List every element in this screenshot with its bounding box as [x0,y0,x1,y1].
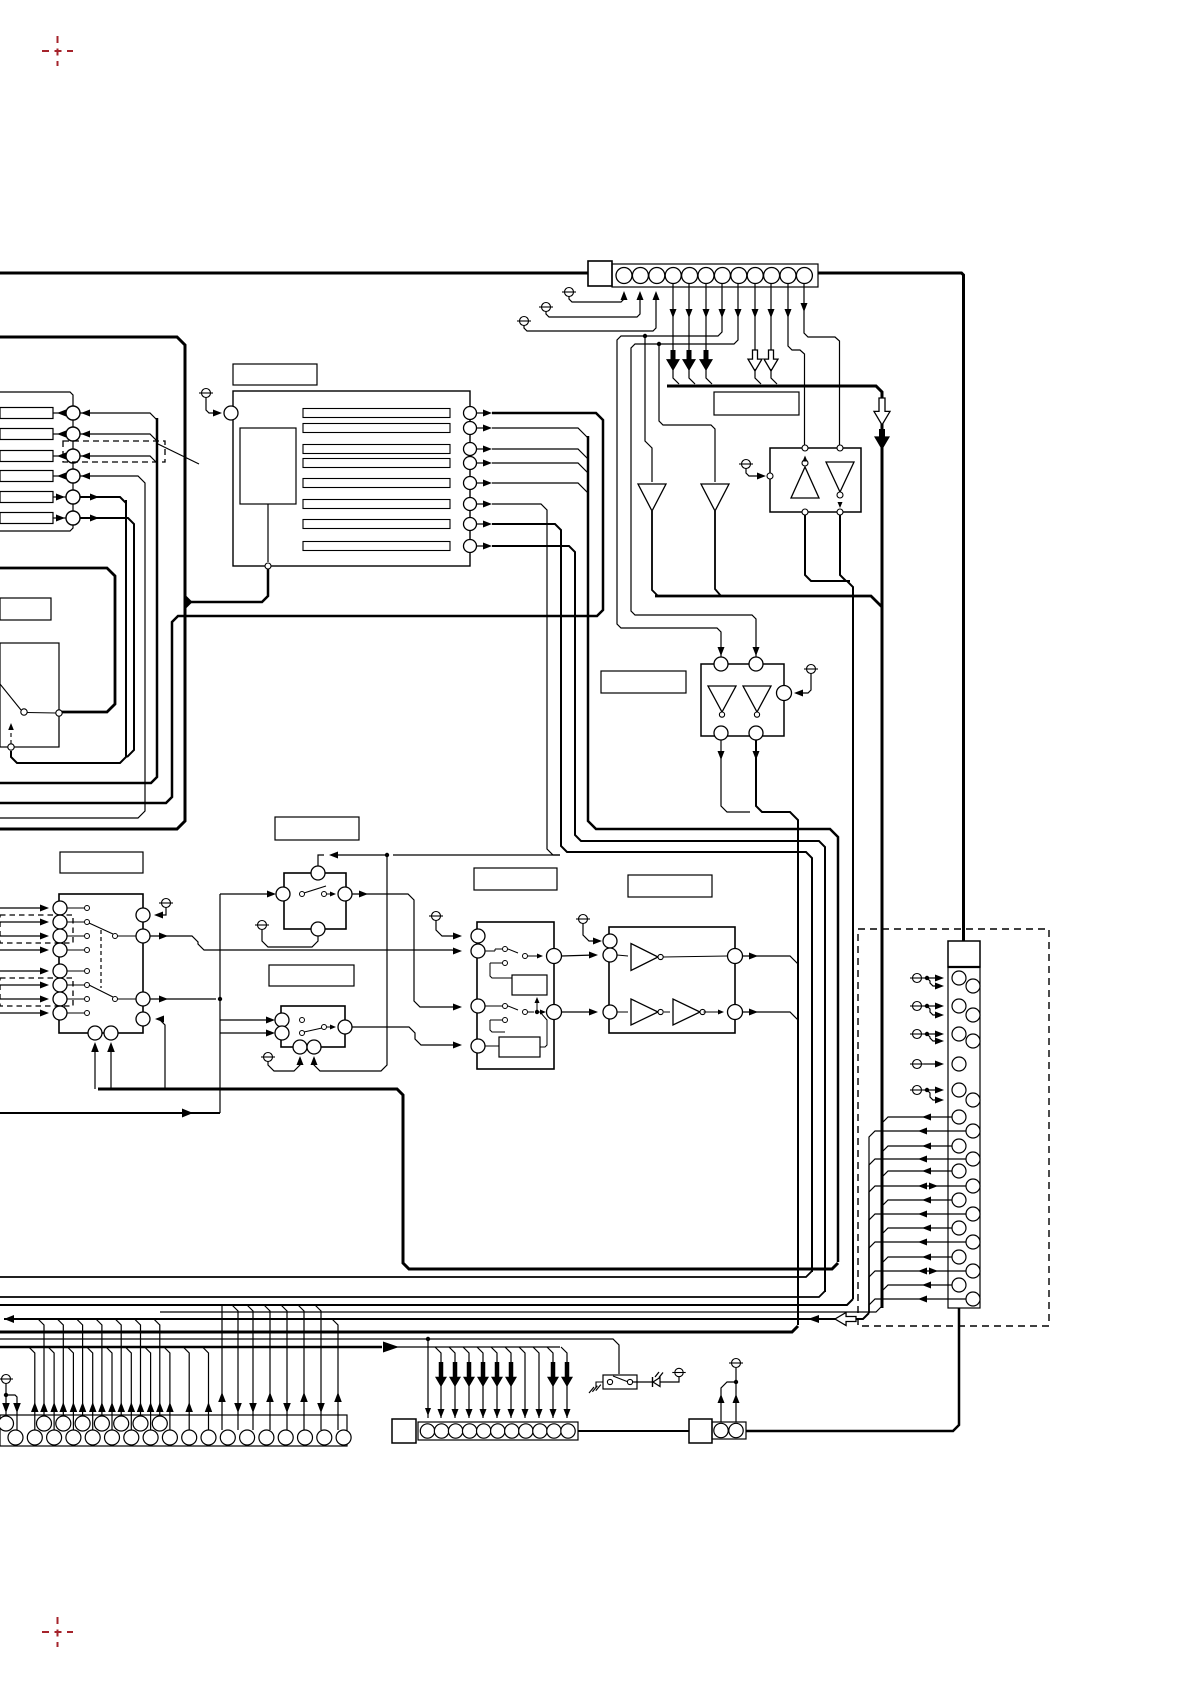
selector contact 6 [85,983,90,988]
connector CN101 pin 7 [714,268,730,284]
selector block body [59,894,143,1033]
right connector pin R [966,1179,980,1193]
terminal T3 [520,317,529,326]
bottom-left connector bottom pin 13 [240,1430,255,1445]
right connector pin R [966,1264,980,1278]
wire J1 down to buffer amp A1 [645,336,652,482]
feedback arrow box1 to node [536,1000,538,1012]
drops from bus y1319 to connector top row [38,1319,44,1415]
terminal with branch to right connector [913,1060,922,1069]
amp block output pin circles [802,509,808,515]
hollow arrow on bus y1319 [835,1313,856,1326]
middle connector pin 4 [462,1424,476,1438]
connector CN101 pin 10 [764,268,780,284]
terminal T8 to switch2 bottom [264,1053,273,1062]
B-block row 1 output circle [464,407,477,420]
buffer triangle B2b [673,999,700,1025]
middle connector pin 11 [561,1424,575,1438]
bottom-left connector bottom pin 10 [182,1430,197,1445]
solid block arrow on drop [449,1362,461,1387]
middle connector pin 5 [477,1424,491,1438]
label box for B-block [233,364,317,385]
right connector pin R [966,979,980,993]
right connector pin R [966,1093,980,1107]
detect switch box [603,1375,637,1389]
bottom-left connector top pin 6 [114,1416,129,1431]
inverter block mute circle [777,686,792,701]
bus line y1339 thin with node [0,1339,619,1374]
solid block arrow on drop [561,1362,573,1387]
middle connector pin 2 [434,1424,448,1438]
bottom-left connector bottom pin 17 [317,1430,332,1445]
selector input 7 circle [53,992,67,1006]
mid-left block label box [0,598,51,620]
wire J2 down to buffer amp A2 [659,344,715,482]
middle connector pin 10 [547,1424,561,1438]
wire inverter outputs down to thick vertical x798 [721,740,750,812]
buffer block body [609,927,735,1033]
bottom-left connector top pin 4 [75,1416,90,1431]
mid-right input circles [471,929,485,943]
bottom-left connector bottom pin 4 [66,1430,81,1445]
solid block arrow on drop [477,1362,489,1387]
terminal with branch to right connector [913,1002,922,1011]
selector input 1 wire [0,907,45,909]
mixer row 6 box [0,513,53,524]
switch2 block body [281,1006,345,1047]
buffer input circles [603,934,617,948]
terminal with branch to right connector [913,1030,922,1039]
connector CN101 pin 4 [665,268,681,284]
right connector pin L4 [952,1057,966,1071]
middle connector pin 3 [448,1424,462,1438]
switch2 right circle [338,1020,352,1034]
dashed control arrow [10,726,12,744]
right connector pin L1 [952,971,966,985]
wire T2 to pin2 [546,296,640,317]
wire mixer row1 input from bus x157 [80,413,157,420]
registration mark top-left [42,36,73,66]
connector3 pins [714,1423,728,1437]
label box for inverter block [601,671,686,693]
selector bottom circles [88,1026,102,1040]
junction line y855 into switch blocks [393,854,560,856]
solid block arrow on drop [435,1362,447,1387]
bottom-left connector top pin 3 [56,1416,71,1431]
wire mid-right out1 to buffer in [562,955,595,956]
wire buffer out1 to vertical x798 [743,956,799,964]
switch2 left circles [275,1013,289,1027]
bottom-left connector top pin 5 [94,1416,109,1431]
middle connector body [418,1422,578,1440]
bottom-left connector bottom pin 6 [105,1430,120,1445]
terminal T9 to selector aux [162,899,171,908]
switch output node circle [8,744,14,750]
amp block input pin circles [802,445,808,451]
bottom-left connector top pin 2 [37,1416,52,1431]
right connector pin L12 [952,1278,966,1292]
switch2 bottom circles [293,1040,307,1054]
buffer triangle B2a [631,999,658,1025]
bottom-left connector top pin 1 [0,1416,14,1431]
wire mixer row2 input from bus x157 [80,434,157,441]
B-block row 8 output circle [464,540,477,553]
right connector pin R [966,1235,980,1249]
right connector pin L11 [952,1250,966,1264]
terminal T11 to buffer top input [579,915,588,924]
wires into switch2 left [220,1019,271,1021]
B-block row 2 output circle [464,422,477,435]
selector input 4 circle [53,943,67,957]
label box for switch2 block [269,965,354,986]
label box for selector block [60,852,143,873]
solid block arrow on pin4 wire [666,350,680,371]
wire: top bus from left edge to connector CN101 [0,272,588,275]
wire LED to terminal T14 [660,1377,679,1382]
selector input 6 circle [53,978,67,992]
drops from bus y1347 to connector bottom row [29,1347,35,1430]
selector contact 2 [85,920,90,925]
right connector header [948,941,980,967]
right connector pin R [966,1008,980,1022]
bus line y1297 [0,1291,825,1297]
B-block row 8 register box [303,542,450,551]
drops from y1347 to middle connector [435,1347,441,1418]
terminal T5 to mute input [807,665,816,674]
label box for switch1 block [275,817,359,840]
wire switch1 output to mid-right block [352,894,458,1007]
B-block row 5 register box [303,479,450,488]
mixer row 6 circle [66,511,80,525]
selector input 3 wire [0,935,45,937]
right connector pin L5 [952,1083,966,1097]
middle connector pin 9 [533,1424,547,1438]
wire A1/A2 outputs merge to thick line y596 [652,511,658,596]
bus line y1312 [160,1306,882,1312]
thick line y803 from B-box row1 return [0,413,603,803]
wire CN101 pin8 left-down to inverter U2 input 2, node J2 [631,284,756,658]
bottom-left connector bottom pin 15 [278,1430,293,1445]
wire buffer out2 to vertical x798 [743,1012,799,1020]
terminal T14 [675,1368,683,1376]
switch2 contacts [300,1018,305,1023]
B-block body [233,391,470,566]
wire node x220 up to switch1, down to switch2 [219,894,221,1033]
mid-right internals group2 [503,1004,508,1009]
dashed gang line [100,930,102,988]
B-block row 4 output circle [464,457,477,470]
bottom-left connector bottom pin 8 [143,1430,158,1445]
selector input 1 circle [53,901,67,915]
amp block buffer triangle up [791,467,819,498]
wire controller to bottom port [267,504,269,562]
solid block arrow on pin5 wire [682,350,696,371]
wire CN101 pin5 down to bus [688,284,690,352]
wire B row4 to bus x588 [492,463,588,473]
switch SW1 arm [0,684,21,710]
wire CN101 pin11 to amp input A [788,284,805,445]
wire from thick y1089 to selector aux 1019 [159,1019,165,1089]
B-block row 5 output circle [464,477,477,490]
selector input 8 circle [53,1006,67,1020]
B-block row 3 output circle [464,443,477,456]
bottom-left connector body [0,1415,347,1446]
wire B row7 via x561 to thick y852->x812 [492,524,812,1272]
wire into switch1 left [220,893,272,895]
B-block row 4 register box [303,459,450,468]
selector input 6 wire [0,984,45,986]
registration mark bottom-left [42,1617,73,1647]
B-block internal controller box [240,428,296,504]
mixer row 2 circle [66,427,80,441]
buffer output circle 1 [728,949,743,964]
buffer output circle 2 [728,1005,743,1020]
connector3 body [712,1422,746,1439]
wire CN101 pin4 down to bus [672,284,674,352]
terminal with branch to right connector [913,1086,922,1095]
wire from x126 to switch block circle [11,500,126,763]
buffer triangle B1 [631,944,658,971]
wire bottom of mixer column [0,524,73,531]
right connector pin L8 [952,1164,966,1178]
inverter block input circles [714,657,728,671]
selector input 2 wire [0,921,45,923]
selector contact 4 [85,948,90,953]
wire CN101 pin7 left-down to inverter U2 input 1, node J1 [617,284,722,658]
selector output node to switch blocks [150,998,216,1000]
wire: top bus from connector to right edge, down right side [818,273,964,941]
terminal T7 [258,921,267,930]
terminal T2 [542,303,551,312]
right connector pin L7 [952,1139,966,1153]
arrow line y1113 to off-page [0,1112,220,1114]
terminal T6 to B-block input [202,389,211,398]
wire B row6 via x547 to junction line y855 [492,504,560,855]
bottom-left connector bottom pin 9 [162,1430,177,1445]
label box for IC amp block [714,392,799,415]
selector common B circle [136,992,150,1006]
mid-left block border (thick rounded) [0,568,115,712]
bottom-left connector bottom pin 7 [124,1430,139,1445]
inverter U2a triangle [708,686,736,712]
connector CN101 pin 1 [616,268,632,284]
hollow block arrow on right bus [874,398,890,425]
wire mixer row6 output joins x126 [80,518,134,757]
wires from thick y1089 up into selector bottom [94,1044,96,1089]
wire middle connector to connector3 [578,1430,689,1432]
dashed group box rows6-7 [0,978,73,1006]
wire CN101 pin9 down to bus (hollow arrow) [754,284,756,350]
wire top of mixer column [0,392,73,407]
wire amp outputs merge to vertical x853 [805,515,853,1299]
bottom-left connector bottom pin 14 [259,1430,274,1445]
mixer row 4 circle [66,469,80,483]
drop from bus y1319 x338 [332,1319,338,1430]
wire selector output row-a to mid-right block [150,936,452,950]
connector CN101 pin 5 [682,268,698,284]
wire B row3 to bus x588 [492,449,588,459]
selector contact 7 [85,997,90,1002]
wire T3 to pin3 [524,296,656,331]
outer border of upper-left block (thick rounded) [0,337,185,829]
inverter U2b triangle [743,686,771,712]
solid block arrow on drop [547,1362,559,1387]
mixer row 2 box [0,429,53,440]
switch1 right circle [338,887,352,901]
wire B row2 to bus x588 [492,428,588,438]
connector CN101 pin 12 [796,268,812,284]
bus x588 rows2-5 to thick y829 [492,483,588,493]
terminal with branch to right connector [913,974,922,983]
bottom-left connector bottom pin 16 [298,1430,313,1445]
terminal T10 to mid-right input1 [432,912,441,921]
bottom-left connector bottom pin 18 [336,1430,351,1445]
solid block arrow on drop [463,1362,475,1387]
connector CN101 body [612,264,818,287]
right connector pin L6 [952,1110,966,1124]
selector contact 8 [85,1011,90,1016]
inverter block output circles [714,726,728,740]
selector input 4 wire [0,949,45,951]
bottom-left connector bottom pin 11 [201,1430,216,1445]
selector common A circle [136,929,150,943]
wire CN101 pin6 down to bus [705,284,707,352]
connector CN101 pin 9 [747,268,763,284]
B-block input circle [224,406,238,420]
wire switch2 output to mid-right block [352,1027,458,1045]
wire CN101 pin12 to amp input B [804,284,840,445]
middle connector pin 8 [519,1424,533,1438]
bus vertical x157 to thick line y783 [0,418,157,783]
switch SW1 throw circle [56,710,62,716]
terminal T1 (top) [565,288,574,297]
wire CN101 pin10 down to bus (hollow arrow) [770,284,772,350]
wire mid-right out2 to buffer in [562,1011,595,1013]
inverter block body [701,664,784,736]
mixer row 5 circle [66,490,80,504]
mixer row 3 box [0,451,53,462]
selector input 5 wire [0,970,45,972]
switch1 top circle [311,866,325,880]
wire mixer row5 output via x126 [80,497,126,757]
switch1 left circle [276,887,290,901]
connector CN101 pin 3 [649,268,665,284]
solid block arrow on drop [505,1362,517,1387]
connector CN101 key square [588,261,612,286]
connector3 key square [689,1419,712,1443]
bus line y1305 [0,1299,853,1305]
dashed group box rows2-3 [0,915,73,943]
right connector pin R [966,1124,980,1138]
mid-right internal box 2 [499,1037,540,1057]
middle connector key square [392,1419,416,1443]
option slash mark [158,444,199,464]
selector contact 1 [85,906,90,911]
bottom-left connector bottom pin 12 [220,1430,235,1445]
selector aux circle row 915 [136,908,150,922]
bottom-left connector bottom pin 1 [8,1430,23,1445]
bottom-left connector top pin 7 [133,1416,148,1431]
selector contact 3 [85,934,90,939]
right connector pin R [966,1292,980,1306]
bottom-left connector bottom pin 5 [85,1430,100,1445]
B-block row 7 output circle [464,518,477,531]
bottom-left connector top pin 8 [152,1416,167,1431]
solid block arrow on pin6 wire [699,350,713,371]
mixer row 1 box [0,408,53,419]
B-block row 1 register box [303,409,450,418]
bus line y1277 [0,1271,812,1277]
mixer row 5 box [0,492,53,503]
bus line y1319 with arrows [4,1313,869,1319]
wire T1 to pin1 [569,296,624,302]
bottom-left connector bottom pin 3 [47,1430,62,1445]
connector CN101 pin 6 [698,268,714,284]
mixer row 3 circle [66,449,80,463]
selector input 8 wire [0,1012,45,1014]
bottom-left connector bottom pin 2 [27,1430,42,1445]
switch1 block body [284,873,346,929]
amp block enable pin circle [767,473,773,479]
connector CN101 pin 11 [780,268,796,284]
drop from node x428 to middle connector pin1 [427,1339,429,1418]
selector contact 5 [85,969,90,974]
right connector pin R [966,1034,980,1048]
extra right arrows on two rows [929,1183,938,1190]
LED photo-diode [633,1381,652,1383]
B-block row 7 register box [303,520,450,529]
wires from connector3 up to terminal [721,1382,734,1422]
right connector pin L10 [952,1221,966,1235]
bus line y1332 (thick) [0,1326,798,1332]
solid block arrow on drop [491,1362,503,1387]
right connector pin L2 [952,999,966,1013]
switch1 bottom circle [311,922,325,936]
thick return path y1089 / x403 / y1270 / x838 [98,1089,838,1269]
switch1 contacts [300,892,305,897]
label box for mid-right block [474,868,557,890]
switch SW1 pole circle [21,709,27,715]
right connector body [948,967,980,1308]
mid-left inner box [0,643,59,747]
wire mixer row3 input from bus x157 [80,456,157,463]
wire mixer row4 input via x145 to line y818 [0,476,145,818]
dashed boundary box right [858,929,1049,1326]
mixer row 1 circle [66,406,80,420]
mid-right block body [477,922,554,1069]
wire right connector bottom to bottom connectors [746,1308,959,1431]
terminal T12 bottom left [2,1375,11,1384]
mid-right internals group1 [503,947,508,952]
buffer amp A2 (triangle) [701,484,729,511]
middle connector pin 1 [420,1424,434,1438]
selector input 2 circle [53,915,67,929]
B-block row 3 register box [303,445,450,454]
mid-right internal box 1 [512,975,547,995]
wire junction x387 down to switch2 bottom [314,855,387,1071]
B-block bottom port circle [265,563,271,569]
solid block arrow on right bus [874,429,890,450]
amp block IC201 body [770,448,861,512]
B-block row 6 output circle [464,498,477,511]
middle connector pin 7 [505,1424,519,1438]
dashed option box on mixer row3 [63,441,165,462]
wire B row8 via x575 to thick y841->x825 [492,546,825,1292]
label box for buffer block [628,875,712,897]
drops from bus y1305 to connector (right group) [221,1305,223,1430]
middle connector pin 6 [491,1424,505,1438]
selector input 3 circle [53,929,67,943]
